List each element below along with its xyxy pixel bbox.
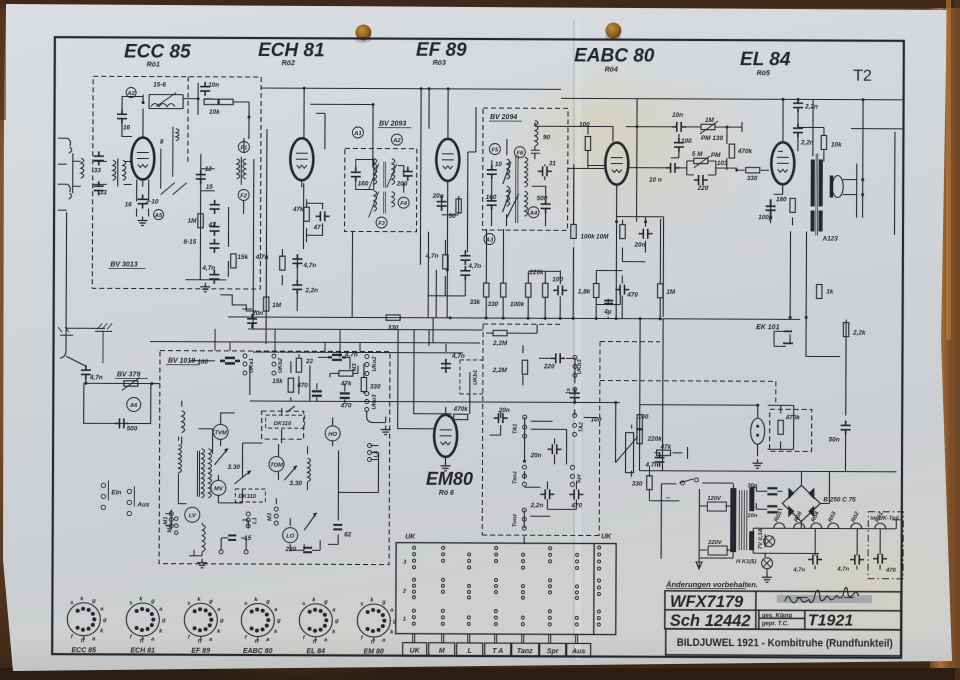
svg-text:BV 2093: BV 2093 bbox=[379, 121, 406, 128]
svg-text:EM80: EM80 bbox=[426, 469, 473, 489]
svg-text:10n: 10n bbox=[672, 112, 683, 119]
svg-text:220: 220 bbox=[284, 546, 296, 553]
svg-text:100k: 100k bbox=[510, 301, 525, 308]
svg-text:UKb1: UKb1 bbox=[473, 370, 479, 385]
svg-text:Tanz: Tanz bbox=[517, 648, 533, 655]
svg-text:330: 330 bbox=[388, 325, 399, 332]
svg-text:330: 330 bbox=[488, 301, 499, 308]
svg-text:10M: 10M bbox=[596, 234, 609, 241]
svg-text:M1: M1 bbox=[163, 517, 169, 525]
svg-text:UK: UK bbox=[410, 648, 421, 655]
svg-text:220k: 220k bbox=[528, 269, 544, 276]
svg-text:Rö5: Rö5 bbox=[757, 70, 770, 77]
svg-text:20n: 20n bbox=[498, 407, 510, 414]
svg-text:100µ: 100µ bbox=[758, 214, 773, 221]
svg-text:Spr: Spr bbox=[547, 648, 560, 655]
svg-text:B 250 C 75: B 250 C 75 bbox=[823, 496, 856, 503]
svg-text:5 M: 5 M bbox=[692, 151, 703, 158]
svg-text:ECH 81: ECH 81 bbox=[258, 40, 325, 61]
svg-text:2-10: 2-10 bbox=[145, 199, 159, 206]
svg-text:PM 130: PM 130 bbox=[701, 135, 724, 142]
svg-text:EABC 80: EABC 80 bbox=[574, 45, 655, 66]
svg-text:1s: 1s bbox=[566, 387, 572, 394]
svg-text:4,7n: 4,7n bbox=[792, 567, 805, 573]
svg-text:20n: 20n bbox=[633, 242, 645, 249]
svg-text:Rö 6: Rö 6 bbox=[439, 490, 454, 497]
svg-text:A1: A1 bbox=[353, 131, 361, 137]
svg-text:47: 47 bbox=[208, 222, 217, 229]
svg-text:g: g bbox=[161, 618, 166, 624]
svg-text:ges. Klang: ges. Klang bbox=[761, 613, 793, 619]
svg-text:UKo3: UKo3 bbox=[372, 394, 378, 410]
svg-text:10n: 10n bbox=[747, 513, 757, 519]
svg-text:WFX7179: WFX7179 bbox=[670, 593, 744, 611]
svg-text:47k: 47k bbox=[292, 206, 304, 213]
svg-text:12: 12 bbox=[205, 166, 213, 173]
svg-text:Rö4: Rö4 bbox=[605, 67, 618, 74]
svg-text:EK 101: EK 101 bbox=[756, 324, 779, 331]
svg-text:220V: 220V bbox=[707, 540, 723, 546]
svg-text:UK: UK bbox=[601, 534, 612, 541]
svg-text:1,8k: 1,8k bbox=[578, 288, 591, 295]
svg-text:A123: A123 bbox=[821, 235, 838, 242]
svg-text:Tonz: Tonz bbox=[512, 514, 518, 527]
svg-text:F2: F2 bbox=[240, 193, 248, 199]
svg-text:UKa1: UKa1 bbox=[249, 358, 255, 373]
svg-text:F1: F1 bbox=[240, 145, 247, 151]
svg-text:Rö3: Rö3 bbox=[433, 60, 446, 67]
svg-text:20n: 20n bbox=[530, 452, 542, 459]
svg-text:10 n: 10 n bbox=[649, 177, 662, 184]
svg-text:M: M bbox=[439, 648, 445, 655]
svg-text:Aus: Aus bbox=[571, 648, 585, 655]
svg-text:220k: 220k bbox=[647, 436, 663, 443]
svg-text:A5: A5 bbox=[154, 213, 163, 219]
svg-text:4,7n: 4,7n bbox=[467, 263, 481, 270]
svg-text:ECC 85: ECC 85 bbox=[124, 41, 191, 62]
svg-text:500: 500 bbox=[537, 195, 548, 202]
svg-text:HO: HO bbox=[328, 432, 337, 438]
svg-text:470: 470 bbox=[626, 292, 638, 299]
svg-text:4,7n: 4,7n bbox=[836, 567, 849, 573]
svg-text:470: 470 bbox=[296, 382, 308, 389]
svg-text:Änderungen vorbehalten.: Änderungen vorbehalten. bbox=[665, 580, 758, 589]
svg-text:160: 160 bbox=[358, 180, 369, 187]
svg-text:F4: F4 bbox=[400, 201, 408, 207]
svg-text:100: 100 bbox=[579, 121, 590, 128]
svg-text:4,7n: 4,7n bbox=[302, 262, 316, 269]
svg-text:8: 8 bbox=[160, 139, 164, 146]
svg-text:T A: T A bbox=[492, 648, 503, 655]
svg-text:~: ~ bbox=[665, 493, 670, 503]
svg-text:330: 330 bbox=[747, 175, 758, 182]
svg-text:T1921: T1921 bbox=[808, 612, 854, 629]
svg-text:8-15: 8-15 bbox=[183, 239, 196, 246]
svg-text:103: 103 bbox=[717, 160, 728, 167]
svg-text:100: 100 bbox=[681, 138, 692, 145]
svg-text:3.30: 3.30 bbox=[289, 480, 302, 487]
svg-text:M1: M1 bbox=[167, 525, 173, 533]
svg-text:2,2n: 2,2n bbox=[800, 139, 814, 146]
svg-text:10n: 10n bbox=[208, 82, 219, 89]
svg-text:UK: UK bbox=[405, 534, 416, 541]
svg-text:MV: MV bbox=[214, 486, 224, 492]
svg-text:160: 160 bbox=[486, 194, 497, 201]
svg-text:4,7n: 4,7n bbox=[644, 462, 658, 469]
svg-text:1M: 1M bbox=[272, 302, 282, 309]
svg-text:A2: A2 bbox=[392, 138, 401, 144]
svg-text:A6: A6 bbox=[129, 403, 138, 409]
svg-text:UKb3: UKb3 bbox=[577, 359, 583, 375]
svg-text:90: 90 bbox=[543, 134, 551, 141]
svg-text:2,2n: 2,2n bbox=[304, 287, 318, 294]
svg-text:220: 220 bbox=[697, 185, 709, 192]
svg-text:L1: L1 bbox=[252, 517, 258, 524]
svg-text:Tanz: Tanz bbox=[512, 471, 518, 484]
svg-text:g: g bbox=[150, 599, 155, 605]
svg-text:100: 100 bbox=[197, 359, 208, 366]
svg-text:g: g bbox=[334, 618, 339, 624]
svg-text:100k: 100k bbox=[580, 233, 595, 240]
svg-text:1k: 1k bbox=[826, 289, 834, 296]
svg-text:EABC 80: EABC 80 bbox=[243, 648, 273, 655]
svg-text:DK110: DK110 bbox=[238, 494, 256, 500]
svg-text:47k: 47k bbox=[340, 380, 352, 387]
svg-text:470k: 470k bbox=[785, 414, 801, 421]
svg-text:g: g bbox=[208, 599, 213, 605]
svg-text:g: g bbox=[323, 599, 328, 605]
svg-text:15k: 15k bbox=[237, 254, 248, 261]
svg-text:4,7n: 4,7n bbox=[451, 353, 465, 360]
svg-text:g: g bbox=[392, 619, 397, 625]
svg-text:4,7n: 4,7n bbox=[255, 254, 269, 261]
svg-text:Ein: Ein bbox=[111, 489, 121, 496]
svg-text:47k: 47k bbox=[660, 444, 672, 451]
svg-text:33: 33 bbox=[100, 189, 108, 196]
svg-text:g: g bbox=[265, 599, 270, 605]
svg-text:47: 47 bbox=[313, 224, 322, 231]
svg-text:4,7n: 4,7n bbox=[201, 265, 215, 272]
svg-text:TOM: TOM bbox=[270, 463, 283, 469]
svg-text:L3: L3 bbox=[374, 450, 380, 458]
svg-text:LO: LO bbox=[286, 534, 295, 540]
svg-text:BV 379: BV 379 bbox=[117, 371, 140, 378]
svg-text:TA2: TA2 bbox=[579, 421, 585, 432]
svg-text:2,2M: 2,2M bbox=[492, 367, 508, 374]
svg-text:15: 15 bbox=[244, 535, 252, 542]
svg-text:DK110: DK110 bbox=[274, 421, 292, 427]
svg-text:470k: 470k bbox=[453, 406, 469, 413]
svg-text:A2: A2 bbox=[126, 91, 135, 97]
svg-text:470: 470 bbox=[885, 568, 896, 574]
svg-text:100: 100 bbox=[552, 276, 563, 283]
svg-text:Rö1: Rö1 bbox=[147, 62, 160, 69]
svg-text:PM: PM bbox=[711, 152, 721, 159]
svg-text:22: 22 bbox=[305, 358, 314, 365]
svg-text:2,2n: 2,2n bbox=[530, 502, 544, 509]
svg-text:g: g bbox=[91, 598, 96, 604]
svg-text:EF 89: EF 89 bbox=[416, 40, 467, 61]
svg-text:F5: F5 bbox=[491, 148, 499, 154]
svg-text:2,2n: 2,2n bbox=[804, 103, 818, 110]
svg-text:BV 2094: BV 2094 bbox=[490, 114, 517, 121]
svg-text:120V: 120V bbox=[707, 496, 722, 502]
svg-text:ECC 85: ECC 85 bbox=[71, 647, 96, 654]
svg-text:1M: 1M bbox=[705, 117, 715, 124]
svg-text:Rö2: Rö2 bbox=[282, 60, 295, 67]
svg-text:470: 470 bbox=[570, 502, 582, 509]
svg-text:F6: F6 bbox=[516, 151, 524, 157]
svg-text:31: 31 bbox=[549, 160, 557, 167]
svg-text:330: 330 bbox=[632, 481, 643, 488]
svg-text:15-6: 15-6 bbox=[153, 82, 166, 89]
svg-text:H K1(5): H K1(5) bbox=[736, 559, 756, 565]
svg-text:EM 80: EM 80 bbox=[364, 648, 384, 655]
svg-text:Spr: Spr bbox=[576, 473, 582, 483]
svg-text:33k: 33k bbox=[470, 299, 481, 306]
svg-text:g: g bbox=[219, 618, 224, 624]
svg-text:30n: 30n bbox=[747, 483, 757, 489]
svg-text:33: 33 bbox=[94, 167, 102, 174]
svg-text:4,7n: 4,7n bbox=[344, 351, 358, 358]
svg-text:TVM: TVM bbox=[214, 430, 226, 436]
svg-text:220: 220 bbox=[543, 363, 555, 370]
svg-text:16: 16 bbox=[123, 124, 131, 131]
svg-text:10k: 10k bbox=[831, 142, 842, 149]
svg-text:100: 100 bbox=[591, 416, 602, 423]
svg-text:15k: 15k bbox=[272, 378, 283, 385]
svg-text:gepr. T.C.: gepr. T.C. bbox=[761, 621, 789, 627]
svg-text:ECH 81: ECH 81 bbox=[130, 647, 155, 654]
svg-text:10k: 10k bbox=[209, 109, 220, 116]
svg-text:200: 200 bbox=[396, 181, 408, 188]
svg-text:T2: T2 bbox=[853, 68, 872, 85]
svg-text:UKb2: UKb2 bbox=[278, 357, 284, 373]
svg-text:1M: 1M bbox=[188, 218, 198, 225]
svg-text:470: 470 bbox=[340, 402, 352, 409]
svg-text:1M: 1M bbox=[666, 289, 676, 296]
svg-text:1: 1 bbox=[403, 617, 406, 623]
svg-text:UKo2: UKo2 bbox=[372, 356, 378, 372]
svg-text:g: g bbox=[381, 600, 386, 606]
svg-text:50n: 50n bbox=[829, 437, 840, 444]
svg-text:F3: F3 bbox=[378, 221, 386, 227]
svg-text:L: L bbox=[468, 648, 472, 655]
svg-text:10: 10 bbox=[495, 161, 503, 168]
svg-text:20n: 20n bbox=[432, 193, 444, 200]
svg-text:50: 50 bbox=[449, 213, 457, 220]
svg-text:16: 16 bbox=[125, 201, 133, 208]
svg-text:BV 3013: BV 3013 bbox=[110, 261, 137, 268]
svg-text:EL 84: EL 84 bbox=[306, 648, 325, 655]
svg-text:g: g bbox=[276, 618, 281, 624]
svg-text:g: g bbox=[102, 617, 107, 623]
svg-text:330: 330 bbox=[370, 384, 381, 391]
svg-text:2,2k: 2,2k bbox=[852, 330, 866, 337]
svg-text:TA1: TA1 bbox=[513, 424, 519, 435]
svg-text:4,7n: 4,7n bbox=[89, 374, 103, 381]
svg-text:2,2M: 2,2M bbox=[492, 340, 508, 347]
svg-text:4µ: 4µ bbox=[603, 309, 612, 316]
svg-text:62: 62 bbox=[344, 531, 352, 538]
svg-text:LV: LV bbox=[189, 513, 197, 519]
svg-text:100: 100 bbox=[638, 414, 649, 421]
svg-text:180: 180 bbox=[776, 196, 787, 203]
svg-text:BILDJUWEL 1921 - Kombitruhe (R: BILDJUWEL 1921 - Kombitruhe (Rundfunktei… bbox=[677, 637, 893, 650]
svg-text:M3: M3 bbox=[352, 363, 358, 372]
svg-text:4,7n: 4,7n bbox=[425, 253, 439, 260]
svg-text:EL 84: EL 84 bbox=[740, 49, 791, 70]
svg-text:M3: M3 bbox=[267, 512, 273, 521]
svg-text:A4: A4 bbox=[529, 211, 538, 217]
svg-text:Aus: Aus bbox=[136, 502, 150, 509]
svg-text:EF 89: EF 89 bbox=[191, 648, 210, 655]
svg-text:15: 15 bbox=[206, 184, 214, 191]
svg-text:500: 500 bbox=[127, 425, 138, 432]
svg-text:7V 0,3A: 7V 0,3A bbox=[758, 528, 764, 549]
svg-text:3.30: 3.30 bbox=[227, 464, 240, 471]
svg-text:Sch 12442: Sch 12442 bbox=[670, 612, 751, 630]
svg-text:470k: 470k bbox=[737, 148, 753, 155]
